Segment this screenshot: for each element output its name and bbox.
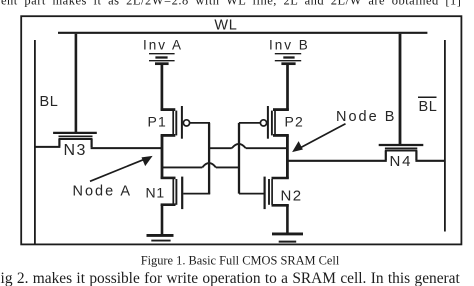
arrow to node B	[292, 124, 345, 152]
svg-text:Node A: Node A	[73, 184, 133, 200]
svg-text:Node B: Node B	[336, 109, 396, 125]
label P2	[285, 114, 305, 130]
transistor N3 (access NMOS)	[35, 133, 163, 148]
svg-text:Inv A: Inv A	[143, 37, 183, 52]
wire node B to left gates with hop	[210, 144, 286, 148]
label node B	[336, 109, 396, 125]
net label WL	[214, 18, 237, 34]
svg-text:N1: N1	[146, 184, 166, 200]
arrow to node A	[90, 156, 153, 181]
ground under N2	[272, 234, 303, 242]
wire left gate bus (node B net)	[208, 123, 210, 194]
supply symbol Inv B	[275, 54, 301, 111]
bottom cut-off text line	[0, 270, 461, 286]
wire node A column	[161, 135, 164, 178]
wire node A to right gates with hop	[162, 163, 239, 167]
label P1	[148, 114, 168, 130]
transistor N1 (NMOS)	[161, 177, 211, 210]
label N2	[281, 187, 303, 204]
svg-text:Fig 2. makes it possible for w: Fig 2. makes it possible for write opera…	[0, 270, 461, 286]
label Inv B	[269, 37, 310, 52]
label N4	[390, 153, 413, 170]
label N1	[146, 184, 166, 200]
svg-text:P2: P2	[285, 114, 305, 130]
svg-text:WL: WL	[214, 18, 237, 34]
bit line BL wire	[34, 40, 36, 244]
svg-text:Figure 1. Basic Full CMOS SRAM: Figure 1. Basic Full CMOS SRAM Cell	[141, 253, 340, 267]
wire WL to N3 gate	[75, 34, 78, 132]
bit line BL-bar wire	[444, 40, 446, 232]
svg-text:N4: N4	[390, 153, 413, 170]
label node A	[73, 184, 133, 200]
svg-text:N3: N3	[64, 142, 87, 159]
word line WL wire	[58, 32, 427, 34]
svg-text:Inv B: Inv B	[269, 37, 310, 52]
label Inv A	[143, 37, 183, 52]
wire N1 source to ground	[161, 205, 164, 235]
wire N2 source to ground	[286, 205, 289, 233]
net label BL	[40, 94, 59, 110]
net label BL-bar	[418, 97, 437, 115]
transistor P2 (PMOS)	[239, 106, 289, 139]
supply symbol Inv A	[149, 54, 175, 111]
caption Figure 1	[141, 253, 340, 267]
label N3	[64, 142, 87, 159]
svg-text:BL: BL	[40, 94, 59, 110]
transistor P1 (PMOS)	[161, 106, 210, 139]
ground under N1	[147, 235, 174, 240]
svg-text:BL: BL	[419, 99, 438, 115]
wire WL to N4 gate	[399, 34, 402, 145]
top cut-off text line	[1, 0, 461, 8]
transistor N4 (access NMOS)	[286, 145, 445, 161]
svg-text:N2: N2	[281, 187, 303, 204]
wire node B column	[286, 135, 289, 178]
transistor N2 (NMOS)	[239, 177, 289, 210]
svg-text:ent part makes it as 2L/2W=2.8: ent part makes it as 2L/2W=2.8 with WL l…	[1, 0, 461, 8]
svg-text:P1: P1	[148, 114, 168, 130]
wire right gate bus (node A net)	[238, 123, 240, 194]
